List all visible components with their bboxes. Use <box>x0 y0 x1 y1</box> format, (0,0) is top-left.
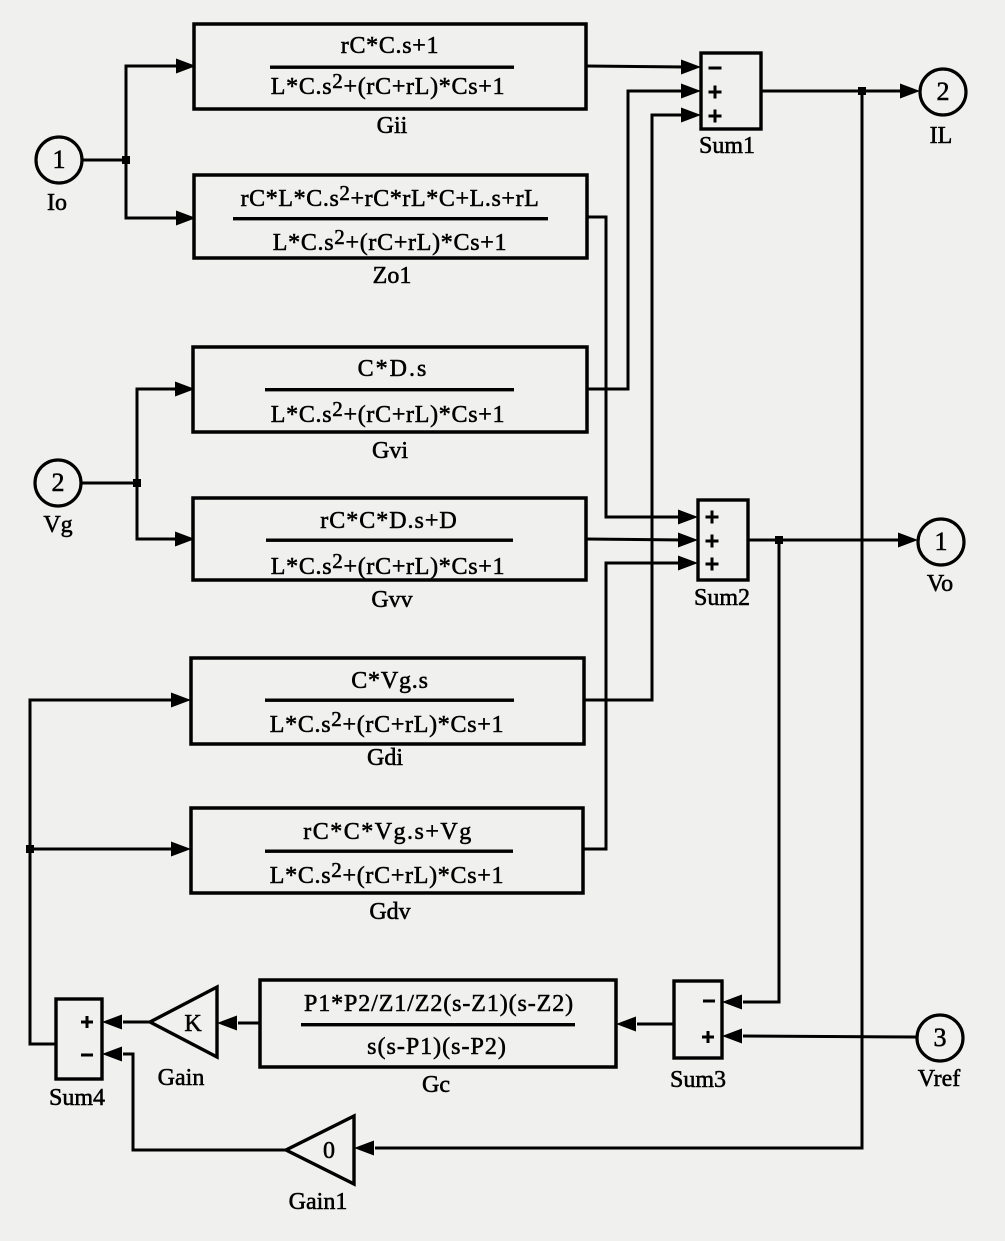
svg-text:3: 3 <box>934 1023 947 1052</box>
svg-text:2: 2 <box>52 468 65 497</box>
wire Gvi output up to Sum1 input 2 <box>587 84 701 390</box>
label IL <box>930 123 953 149</box>
svg-text:Vg: Vg <box>43 512 72 538</box>
wire Gdi output up to Sum1 input 3 <box>584 108 701 701</box>
svg-text:rC*C*D.s+D: rC*C*D.s+D <box>320 508 458 534</box>
svg-text:Gvi: Gvi <box>372 438 408 464</box>
svg-text:L*C.s2+(rC+rL)*Cs+1: L*C.s2+(rC+rL)*Cs+1 <box>271 549 505 580</box>
label Gdi <box>367 745 403 771</box>
svg-text:Sum1: Sum1 <box>699 133 755 159</box>
label Vo <box>927 571 953 597</box>
svg-text:rC*C*Vg.s+Vg: rC*C*Vg.s+Vg <box>303 819 473 845</box>
svg-text:IL: IL <box>930 123 953 149</box>
svg-text:1: 1 <box>53 145 66 174</box>
svg-text:Io: Io <box>47 190 67 216</box>
port Out1 Vo <box>918 519 964 565</box>
svg-text:Sum2: Sum2 <box>694 585 750 611</box>
svg-text:2: 2 <box>937 77 950 106</box>
wire junction to Gdv input <box>30 842 191 857</box>
label Gvi <box>372 438 408 464</box>
label Gii <box>377 113 408 139</box>
svg-text:Vo: Vo <box>927 571 953 597</box>
wire Gdv output up to Sum2 input 3 <box>583 556 698 850</box>
label Io <box>47 190 67 216</box>
wire branch up to Gvi input <box>137 382 195 485</box>
transfer function block Gii <box>194 24 586 109</box>
wire branch down to Zo1 input <box>126 159 196 226</box>
transfer function block Gvv <box>193 498 586 580</box>
svg-text:Sum3: Sum3 <box>670 1067 726 1093</box>
label Sum2 <box>694 585 750 611</box>
label Gvv <box>371 587 412 613</box>
gain block Gain (K), points left <box>150 987 217 1057</box>
svg-text:Gdi: Gdi <box>367 745 403 771</box>
svg-text:Gc: Gc <box>422 1072 450 1098</box>
wire Vref to Sum3 input 2 <box>722 1029 917 1044</box>
sum block Sum1 <box>701 53 761 129</box>
sum block Sum2 <box>698 500 748 580</box>
wire Sum4 output up to Gdi input <box>26 693 191 1045</box>
svg-text:Vref: Vref <box>918 1066 961 1092</box>
wire Gvv output to Sum2 input 2 <box>586 533 698 548</box>
label Sum3 <box>670 1067 726 1093</box>
transfer function block Gvi <box>193 347 587 432</box>
wire Gain output to Sum4 input 1 <box>102 1015 150 1030</box>
svg-text:Gdv: Gdv <box>369 899 410 925</box>
label Sum4 <box>49 1085 105 1111</box>
svg-text:C*D.s: C*D.s <box>358 356 429 382</box>
svg-text:L*C.s2+(rC+rL)*Cs+1: L*C.s2+(rC+rL)*Cs+1 <box>270 707 504 738</box>
svg-text:L*C.s2+(rC+rL)*Cs+1: L*C.s2+(rC+rL)*Cs+1 <box>271 69 505 100</box>
svg-text:L*C.s2+(rC+rL)*Cs+1: L*C.s2+(rC+rL)*Cs+1 <box>271 397 505 428</box>
svg-text:L*C.s2+(rC+rL)*Cs+1: L*C.s2+(rC+rL)*Cs+1 <box>273 225 507 256</box>
label Vref <box>918 1066 961 1092</box>
wire Gc output to Gain input <box>217 1016 260 1031</box>
transfer function block Gdi <box>191 658 584 744</box>
sum block Sum4 (mirrored) <box>56 999 102 1079</box>
wire Vg output to branch junction <box>81 479 141 487</box>
wire Vo junction down to Sum3 input 1 <box>722 541 779 1010</box>
svg-text:Sum4: Sum4 <box>49 1085 105 1111</box>
label Gdv <box>369 899 410 925</box>
wire branch up to Gii input <box>126 59 196 162</box>
svg-text:Gain1: Gain1 <box>289 1189 348 1215</box>
gain block Gain1 (0), points left <box>286 1116 354 1184</box>
label Sum1 <box>699 133 755 159</box>
transfer function block Gc <box>260 980 616 1067</box>
wire Sum1 output to port IL <box>761 84 920 99</box>
svg-text:rC*L*C.s2+rC*rL*C+L.s+rL: rC*L*C.s2+rC*rL*C+L.s+rL <box>241 181 540 212</box>
label Vg <box>43 512 72 538</box>
svg-text:L*C.s2+(rC+rL)*Cs+1: L*C.s2+(rC+rL)*Cs+1 <box>270 858 504 889</box>
svg-text:Gvv: Gvv <box>371 587 412 613</box>
svg-text:rC*C.s+1: rC*C.s+1 <box>341 33 439 59</box>
label Zo1 <box>373 263 412 289</box>
wire IL junction down to Gain1 input <box>354 92 862 1156</box>
svg-text:1: 1 <box>935 527 948 556</box>
wire Sum3 output to Gc input <box>616 1017 674 1032</box>
label Gain <box>158 1065 205 1091</box>
svg-text:Gii: Gii <box>377 113 408 139</box>
svg-text:C*Vg.s: C*Vg.s <box>351 668 428 694</box>
port In2 Vg <box>35 460 81 506</box>
svg-text:P1*P2/Z1/Z2(s-Z1)(s-Z2): P1*P2/Z1/Z2(s-Z1)(s-Z2) <box>304 991 574 1017</box>
port In3 Vref <box>917 1015 963 1061</box>
svg-text:s(s-P1)(s-P2): s(s-P1)(s-P2) <box>367 1034 507 1060</box>
svg-text:Gain: Gain <box>158 1065 205 1091</box>
label Gc <box>422 1072 450 1098</box>
port Out2 IL <box>920 69 966 115</box>
transfer function block Zo1 <box>194 175 587 258</box>
wire Sum2 output to port Vo <box>748 533 918 548</box>
wire Zo1 output down to Sum2 input 1 <box>587 217 698 525</box>
transfer function block Gdv <box>191 808 583 893</box>
wire Gain1 output to Sum4 input 2 <box>102 1047 286 1151</box>
svg-text:K: K <box>184 1011 202 1037</box>
label Gain1 <box>289 1189 348 1215</box>
sum block Sum3 (mirrored) <box>674 981 722 1058</box>
svg-text:Zo1: Zo1 <box>373 263 412 289</box>
port In1 Io <box>36 137 82 183</box>
svg-text:0: 0 <box>323 1138 335 1164</box>
wire branch down to Gvv input <box>137 482 195 547</box>
wire Io output to branch junction <box>82 156 130 164</box>
wire Gii output to Sum1 input 1 <box>586 60 701 75</box>
